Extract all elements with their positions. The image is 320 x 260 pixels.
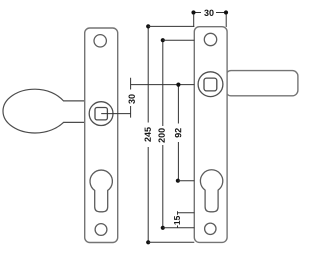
right euro cylinder cutout <box>200 170 222 212</box>
right top screw hole <box>204 33 216 45</box>
right bottom screw hole <box>205 223 216 234</box>
245 bottom leader <box>148 241 194 243</box>
top dim left dot <box>191 10 195 14</box>
dimension 92 vertical line <box>177 85 179 181</box>
200 bottom leader <box>163 227 195 229</box>
lever handle bar <box>226 71 298 96</box>
reference line at lever spindle height <box>131 84 195 86</box>
200 top dot <box>161 38 165 42</box>
245 top leader <box>148 25 194 27</box>
92 top dot <box>176 83 180 87</box>
label 15 (rotated) <box>174 216 180 225</box>
top dim right dot <box>224 10 228 14</box>
dimension 200 vertical line <box>162 40 164 228</box>
right backplate <box>194 27 227 243</box>
left spindle square hole <box>95 108 107 120</box>
left backplate <box>85 28 118 243</box>
245 top dot <box>146 24 150 28</box>
dimension 245 vertical line <box>147 26 149 242</box>
top width dimension line 30 <box>194 12 227 14</box>
right spindle rose circle <box>198 72 223 97</box>
label 245 (rotated) <box>145 127 151 141</box>
left top screw hole <box>94 35 106 47</box>
92 bottom leader <box>178 180 194 182</box>
left bottom screw hole <box>95 224 107 236</box>
label 92 (rotated) <box>175 128 181 137</box>
pad knob (left handle) <box>3 89 85 133</box>
15 top leader <box>178 212 195 214</box>
label 200 (rotated) <box>158 128 164 142</box>
spindle offset leader from left spindle <box>101 113 130 115</box>
label 30 top <box>204 10 213 16</box>
offset dimension vertical 30 <box>130 78 132 118</box>
top dim extension line left <box>193 14 195 27</box>
top dim extension line right <box>225 14 227 27</box>
left euro cylinder cutout <box>90 170 112 212</box>
label 30 left (rotated) <box>129 94 135 103</box>
200 top leader <box>163 39 195 41</box>
left spindle rose circle <box>89 102 113 126</box>
92 bottom dot <box>176 179 180 183</box>
245 bottom dot <box>146 240 150 244</box>
200 bottom dot <box>161 226 165 230</box>
dimension 15 vertical line <box>177 211 179 228</box>
right spindle square hole <box>204 78 217 91</box>
